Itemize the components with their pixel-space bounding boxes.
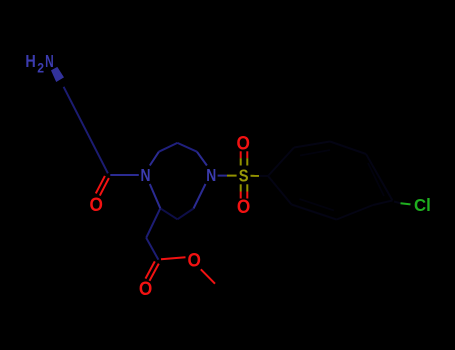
ring bond N1-C(top-left): [150, 152, 159, 166]
benzene inner double bond bottom: [300, 199, 335, 211]
S=O top double bond: [240, 151, 242, 158]
svg-text:O: O: [139, 279, 152, 300]
svg-text:H: H: [25, 51, 35, 71]
S=O bottom double bond: [240, 184, 242, 191]
benzene edge TL-apex: [294, 142, 330, 148]
svg-text:S: S: [239, 165, 249, 185]
svg-text:N: N: [141, 165, 151, 185]
bond ester O to methyl: [201, 269, 215, 283]
ring bond C2-N1: [150, 184, 161, 208]
bond N2 to S: [218, 175, 227, 177]
bond carbonyl C to piperazine N1: [110, 174, 139, 176]
svg-text:N: N: [206, 165, 216, 185]
ring bond N2-C(bottom-right): [194, 184, 206, 209]
ester C=O double bond: [146, 261, 155, 278]
bond CH2 to ester carbonyl C: [146, 238, 158, 260]
svg-text:O: O: [237, 197, 250, 218]
benzene edge TR-R: [366, 154, 393, 201]
svg-text:O: O: [188, 250, 201, 271]
benzene edge Bapex-BL: [292, 205, 337, 220]
benzene edge BL-L: [268, 176, 292, 205]
bond C* to amide carbonyl C: [64, 87, 108, 174]
ring bond bottom apex to C2(bottom-left): [160, 208, 177, 219]
stereo wedge bond from NH2 to C*: [51, 67, 64, 82]
bond benzene to Cl: [394, 202, 401, 204]
ring bond C(top-right)-N2: [197, 152, 207, 166]
benzene edge R-BR: [373, 201, 393, 206]
ring bond top apex to top-right: [177, 143, 197, 152]
ring bond bottom-right to bottom apex: [177, 209, 193, 220]
benzene inner double bond right: [368, 163, 384, 196]
ring bond top-left to top apex: [159, 143, 178, 152]
ester C-O single bond: [161, 257, 186, 259]
svg-text:Cl: Cl: [414, 195, 431, 215]
benzene edge apex-TR: [330, 142, 366, 155]
benzene edge BR-Bapex: [337, 205, 374, 220]
benzene inner double bond top: [300, 150, 330, 156]
svg-text:2: 2: [37, 60, 44, 75]
svg-text:O: O: [90, 195, 103, 216]
benzene edge L-TL: [268, 148, 294, 177]
amide C=O double bond: [96, 176, 105, 194]
bond ring C2 to CH2: [146, 208, 160, 238]
svg-text:N: N: [45, 51, 54, 71]
svg-text:O: O: [237, 133, 250, 154]
bond S to benzene: [251, 175, 260, 177]
